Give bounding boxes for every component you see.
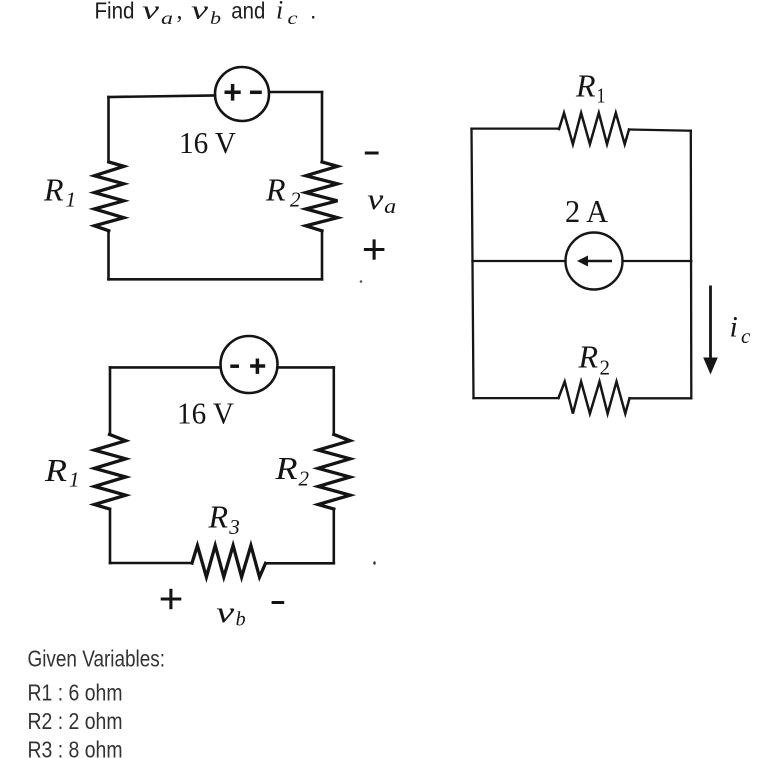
svg-text:Find: Find bbox=[95, 0, 135, 24]
svg-text:b: b bbox=[236, 609, 246, 631]
svg-text:v: v bbox=[216, 596, 235, 629]
svg-text:R: R bbox=[208, 499, 229, 535]
svg-text:R: R bbox=[274, 450, 298, 486]
svg-text:R2 : 2 ohm: R2 : 2 ohm bbox=[28, 708, 123, 734]
svg-text:R: R bbox=[578, 338, 599, 374]
svg-text:c: c bbox=[288, 8, 298, 28]
svg-text:i: i bbox=[276, 0, 283, 25]
svg-text:16 V: 16 V bbox=[177, 396, 235, 431]
svg-text:c: c bbox=[741, 324, 751, 348]
svg-text:v: v bbox=[191, 0, 209, 25]
svg-text:2: 2 bbox=[600, 356, 611, 380]
svg-text:R3 : 8 ohm: R3 : 8 ohm bbox=[28, 737, 123, 758]
svg-text:and: and bbox=[231, 0, 265, 24]
svg-text:2: 2 bbox=[290, 187, 301, 211]
svg-text:2 A: 2 A bbox=[565, 193, 608, 229]
svg-text:R: R bbox=[43, 172, 64, 208]
svg-text:3: 3 bbox=[228, 515, 240, 539]
svg-text:2: 2 bbox=[299, 467, 310, 491]
svg-text:1: 1 bbox=[66, 188, 77, 212]
svg-text:R1 : 6 ohm: R1 : 6 ohm bbox=[28, 680, 123, 706]
svg-text:,: , bbox=[177, 0, 183, 25]
svg-text:1: 1 bbox=[597, 84, 606, 108]
svg-text:a: a bbox=[384, 196, 396, 218]
svg-text:16 V: 16 V bbox=[179, 125, 237, 160]
svg-text:R: R bbox=[44, 452, 68, 488]
svg-text:.: . bbox=[310, 0, 316, 24]
svg-text:Given Variables:: Given Variables: bbox=[28, 645, 166, 671]
svg-text:R: R bbox=[575, 67, 596, 103]
svg-text:v: v bbox=[142, 0, 160, 25]
svg-text:a: a bbox=[161, 8, 173, 28]
svg-text:v: v bbox=[367, 183, 384, 216]
svg-text:i: i bbox=[730, 311, 738, 344]
svg-text:b: b bbox=[210, 8, 221, 28]
svg-text:1: 1 bbox=[69, 468, 80, 492]
svg-text:R: R bbox=[265, 172, 286, 208]
